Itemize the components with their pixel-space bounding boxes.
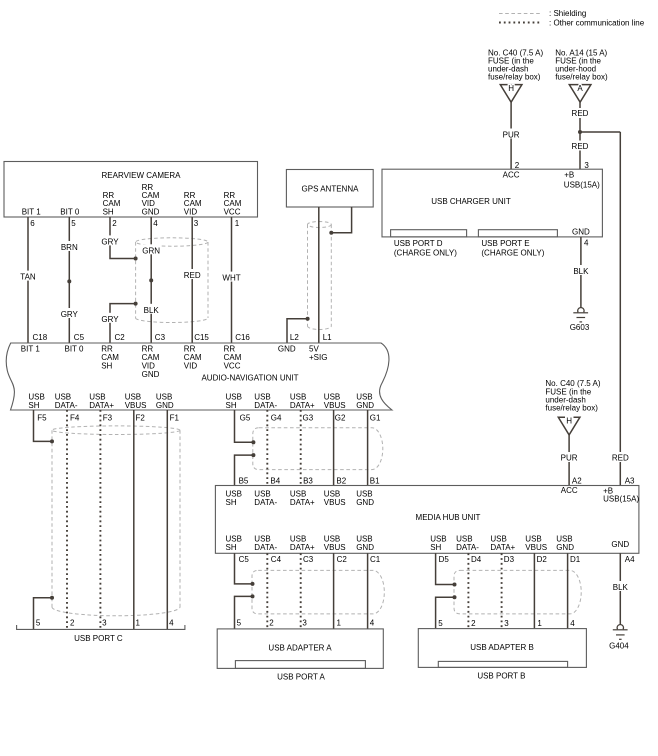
svg-text:B4: B4	[270, 477, 280, 486]
svg-text:GND: GND	[356, 543, 374, 552]
svg-text:fuse/relay box): fuse/relay box)	[555, 73, 608, 82]
svg-text:C3: C3	[303, 555, 314, 564]
svg-text:USB ADAPTER A: USB ADAPTER A	[268, 643, 332, 652]
svg-text:4: 4	[584, 238, 589, 247]
svg-text:RED: RED	[572, 109, 589, 118]
svg-text:3: 3	[194, 219, 199, 228]
svg-text:VID: VID	[184, 362, 198, 371]
svg-text:C2: C2	[115, 333, 126, 342]
svg-text:DATA-: DATA-	[254, 543, 277, 552]
svg-text:VCC: VCC	[224, 207, 241, 216]
svg-text:PUR: PUR	[503, 130, 520, 139]
svg-text:1: 1	[235, 219, 240, 228]
svg-text:REARVIEW CAMERA: REARVIEW CAMERA	[102, 171, 182, 180]
svg-text:B2: B2	[336, 477, 346, 486]
svg-text:DATA-: DATA-	[254, 401, 277, 410]
svg-text:A2: A2	[572, 477, 582, 486]
svg-text:: Shielding: : Shielding	[549, 9, 586, 18]
svg-text:USB PORT A: USB PORT A	[277, 672, 325, 681]
svg-text:GRN: GRN	[142, 246, 160, 255]
svg-text:DATA+: DATA+	[290, 543, 315, 552]
svg-text:4: 4	[570, 619, 575, 628]
svg-text:2: 2	[471, 619, 476, 628]
svg-text:C1: C1	[370, 555, 381, 564]
svg-text:RED: RED	[184, 271, 201, 280]
svg-text:DATA-: DATA-	[254, 498, 277, 507]
svg-text:GND: GND	[611, 540, 629, 549]
svg-text:B3: B3	[303, 477, 313, 486]
svg-text:A3: A3	[625, 477, 635, 486]
svg-text:2: 2	[269, 618, 274, 627]
svg-text:fuse/relay box): fuse/relay box)	[545, 404, 598, 413]
svg-text:5: 5	[438, 619, 443, 628]
svg-text:TAN: TAN	[20, 272, 36, 281]
svg-text:AUDIO-NAVIGATION UNIT: AUDIO-NAVIGATION UNIT	[201, 374, 298, 383]
svg-text:C5: C5	[74, 333, 85, 342]
svg-text:ACC: ACC	[561, 486, 578, 495]
svg-text:C5: C5	[239, 555, 250, 564]
svg-text:C2: C2	[337, 555, 348, 564]
svg-text:USB CHARGER UNIT: USB CHARGER UNIT	[431, 197, 511, 206]
svg-text:L1: L1	[323, 333, 332, 342]
svg-text:SH: SH	[103, 207, 114, 216]
svg-text:WHT: WHT	[222, 274, 240, 283]
svg-text:DATA-: DATA-	[55, 401, 78, 410]
svg-text:BIT 1: BIT 1	[21, 345, 41, 354]
svg-text:+B: +B	[564, 171, 574, 180]
svg-text:D5: D5	[439, 555, 450, 564]
svg-text:GND: GND	[356, 498, 374, 507]
svg-text:USB PORT D: USB PORT D	[394, 239, 443, 248]
svg-text:4: 4	[169, 618, 174, 627]
svg-text:F3: F3	[103, 413, 113, 422]
svg-text:1: 1	[337, 618, 342, 627]
svg-text:D3: D3	[504, 555, 515, 564]
svg-text:C4: C4	[271, 555, 282, 564]
svg-text:BIT 0: BIT 0	[60, 207, 80, 216]
svg-text:USB PORT C: USB PORT C	[74, 634, 123, 643]
svg-text:G2: G2	[335, 413, 346, 422]
svg-text:G603: G603	[570, 323, 590, 332]
svg-text:G404: G404	[609, 642, 629, 651]
svg-text:4: 4	[153, 219, 158, 228]
svg-text:SH: SH	[226, 498, 237, 507]
svg-text:USB(15A): USB(15A)	[564, 180, 600, 189]
svg-text:G5: G5	[240, 413, 251, 422]
svg-text:GND: GND	[142, 370, 160, 379]
svg-text:BRN: BRN	[61, 243, 78, 252]
svg-text:C18: C18	[33, 333, 48, 342]
svg-text:GRY: GRY	[101, 315, 119, 324]
svg-text:C3: C3	[155, 333, 166, 342]
svg-text:VBUS: VBUS	[125, 401, 147, 410]
svg-text:F5: F5	[37, 413, 47, 422]
svg-text:D4: D4	[471, 555, 482, 564]
svg-text:B5: B5	[239, 477, 249, 486]
svg-text:VBUS: VBUS	[324, 543, 346, 552]
svg-text:fuse/relay box): fuse/relay box)	[488, 73, 541, 82]
svg-text:BLK: BLK	[613, 583, 629, 592]
svg-text:MEDIA HUB UNIT: MEDIA HUB UNIT	[416, 513, 481, 522]
svg-text:GPS ANTENNA: GPS ANTENNA	[302, 184, 360, 193]
svg-text:GND: GND	[356, 401, 374, 410]
svg-text:G1: G1	[370, 413, 381, 422]
svg-text:H: H	[508, 84, 514, 93]
svg-text:SH: SH	[226, 543, 237, 552]
svg-text:2: 2	[70, 618, 75, 627]
svg-text:G4: G4	[271, 413, 282, 422]
svg-text:USB PORT B: USB PORT B	[477, 672, 525, 681]
svg-text:PUR: PUR	[561, 453, 578, 462]
svg-text:SH: SH	[430, 543, 441, 552]
svg-text:GND: GND	[156, 401, 174, 410]
svg-text:BIT 1: BIT 1	[22, 207, 42, 216]
svg-text:F2: F2	[136, 413, 146, 422]
svg-text:A: A	[577, 84, 583, 93]
svg-text:DATA+: DATA+	[490, 543, 515, 552]
svg-text:3: 3	[504, 619, 509, 628]
svg-text:5: 5	[237, 618, 242, 627]
svg-text:RED: RED	[612, 453, 629, 462]
svg-text:F1: F1	[170, 413, 180, 422]
svg-text:B1: B1	[370, 477, 380, 486]
svg-text:C16: C16	[235, 333, 250, 342]
svg-text:DATA+: DATA+	[290, 401, 315, 410]
svg-text:GRY: GRY	[101, 237, 119, 246]
svg-text:6: 6	[30, 219, 35, 228]
svg-text:GND: GND	[556, 543, 574, 552]
svg-text:+SIG: +SIG	[309, 353, 327, 362]
svg-text:GND: GND	[572, 227, 590, 236]
svg-text:L2: L2	[290, 333, 299, 342]
svg-text:VBUS: VBUS	[525, 543, 547, 552]
svg-text:DATA-: DATA-	[456, 543, 479, 552]
svg-text:3: 3	[302, 618, 307, 627]
svg-text:RED: RED	[572, 142, 589, 151]
svg-text:GRY: GRY	[61, 310, 79, 319]
svg-text:3: 3	[102, 618, 107, 627]
svg-text:USB(15A): USB(15A)	[603, 495, 639, 504]
svg-text:A4: A4	[625, 555, 635, 564]
svg-text:SH: SH	[28, 401, 39, 410]
svg-text:GND: GND	[278, 345, 296, 354]
svg-text:1: 1	[136, 618, 141, 627]
svg-text:5: 5	[36, 618, 41, 627]
svg-text:H: H	[566, 417, 572, 426]
svg-text:G3: G3	[303, 413, 314, 422]
svg-text:D1: D1	[570, 555, 581, 564]
svg-text:5: 5	[71, 219, 76, 228]
svg-text:SH: SH	[101, 362, 112, 371]
svg-text:BLK: BLK	[144, 306, 160, 315]
svg-text:BIT 0: BIT 0	[65, 345, 85, 354]
svg-text:3: 3	[584, 161, 589, 170]
svg-text:DATA+: DATA+	[89, 401, 114, 410]
svg-text:VCC: VCC	[224, 362, 241, 371]
svg-text:D2: D2	[537, 555, 548, 564]
svg-text:BLK: BLK	[573, 267, 589, 276]
svg-text:USB ADAPTER B: USB ADAPTER B	[470, 643, 534, 652]
svg-text:VBUS: VBUS	[324, 401, 346, 410]
svg-text:VID: VID	[184, 207, 198, 216]
svg-text:(CHARGE ONLY): (CHARGE ONLY)	[481, 248, 544, 257]
svg-text:F4: F4	[70, 413, 80, 422]
svg-text:(CHARGE ONLY): (CHARGE ONLY)	[394, 248, 457, 257]
svg-text:4: 4	[370, 618, 375, 627]
svg-text:SH: SH	[226, 401, 237, 410]
svg-text:DATA+: DATA+	[290, 498, 315, 507]
svg-text:: Other communication line: : Other communication line	[549, 18, 645, 27]
svg-text:1: 1	[537, 619, 542, 628]
svg-text:USB PORT E: USB PORT E	[481, 239, 529, 248]
svg-text:2: 2	[112, 219, 117, 228]
svg-text:GND: GND	[142, 207, 160, 216]
svg-text:VBUS: VBUS	[324, 498, 346, 507]
svg-text:C15: C15	[194, 333, 209, 342]
svg-text:ACC: ACC	[503, 171, 520, 180]
